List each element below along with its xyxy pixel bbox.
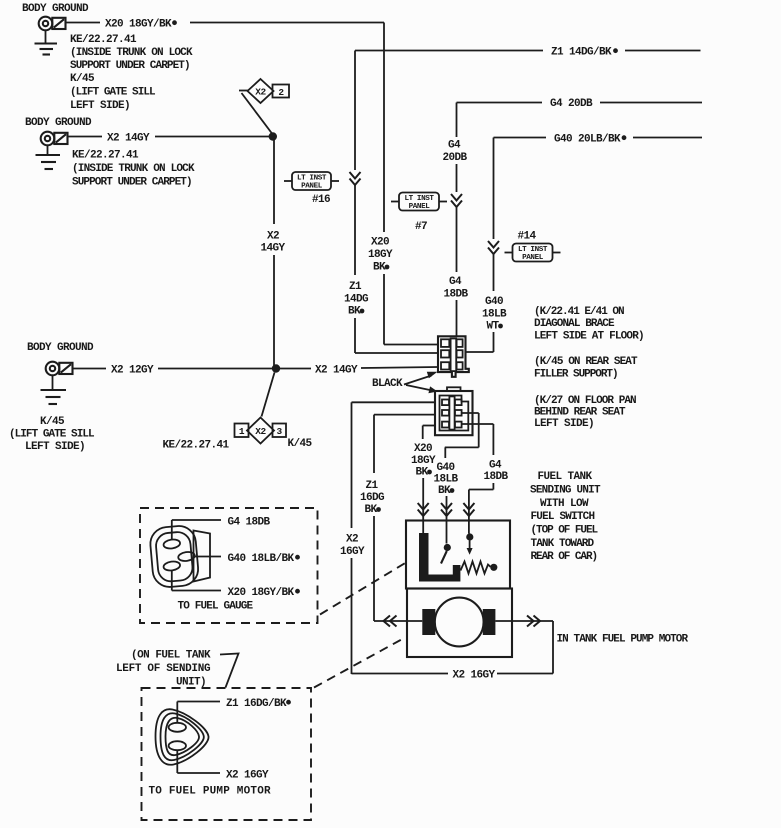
fuel gauge connector face — [149, 525, 210, 589]
wire X2 16GY from K2 — [340, 402, 435, 674]
wire G4 20DB horizontal — [457, 98, 703, 110]
svg-text:BEHIND REAR SEAT: BEHIND REAR SEAT — [534, 407, 626, 419]
svg-text:TO FUEL GAUGE: TO FUEL GAUGE — [178, 601, 254, 613]
svg-text:SUPPORT UNDER CARPET): SUPPORT UNDER CARPET) — [70, 60, 190, 72]
body ground G1 — [22, 3, 89, 55]
wiper arrow — [466, 533, 473, 554]
svg-text:FILLER SUPPORT): FILLER SUPPORT) — [534, 369, 618, 381]
svg-text:FUEL TANK: FUEL TANK — [538, 471, 593, 483]
svg-text:G4: G4 — [448, 140, 461, 152]
svg-text:X2: X2 — [255, 87, 266, 98]
wire G40 20LB vertical — [466, 138, 507, 353]
fuel pump connector face — [156, 709, 209, 765]
svg-text:Z1: Z1 — [349, 281, 362, 293]
instrument panel feed #7 — [391, 193, 447, 234]
body ground G2 — [25, 117, 92, 169]
svg-text:18LB: 18LB — [433, 474, 458, 486]
svg-text:LT INST: LT INST — [404, 195, 434, 203]
svg-text:Z1 16DG/BK: Z1 16DG/BK — [226, 698, 287, 710]
svg-text:(K/27 ON FLOOR PAN: (K/27 ON FLOOR PAN — [534, 395, 636, 407]
connector K2 (K/45) — [435, 387, 473, 435]
svg-text:TANK TOWARD: TANK TOWARD — [531, 538, 595, 550]
wire X2 14GY to connector K1 — [280, 365, 438, 377]
connector K1 (K/22.41 E/41) — [438, 336, 469, 377]
svg-text:FUEL SWITCH: FUEL SWITCH — [531, 511, 595, 523]
svg-text:G4: G4 — [449, 276, 462, 288]
svg-text:BK: BK — [415, 467, 428, 479]
svg-text:14GY: 14GY — [260, 243, 285, 255]
svg-text:Z1 14DG/BK: Z1 14DG/BK — [551, 47, 612, 59]
svg-text:(INSIDE TRUNK ON LOCK: (INSIDE TRUNK ON LOCK — [72, 163, 195, 175]
svg-text:X2: X2 — [346, 534, 358, 546]
pump motor M — [422, 598, 495, 647]
svg-text:G40 20LB/BK: G40 20LB/BK — [554, 134, 621, 146]
svg-text:X2 16GY: X2 16GY — [226, 770, 269, 782]
svg-text:#16: #16 — [312, 194, 330, 206]
pin wire G40 18LB/BK — [194, 553, 300, 565]
svg-text:G4 18DB: G4 18DB — [228, 517, 271, 529]
note K2 location — [534, 356, 638, 381]
svg-text:X2: X2 — [267, 231, 279, 243]
body ground G3 — [27, 342, 94, 404]
svg-text:G40 18LB/BK: G40 18LB/BK — [228, 553, 295, 565]
svg-text:BODY GROUND: BODY GROUND — [22, 3, 89, 15]
pin wire Z1 16DG/BK — [177, 698, 291, 723]
wire X2 12GY from G3 — [73, 365, 276, 377]
wire X20 18GY/BK from G1 — [66, 19, 384, 233]
svg-text:18GY: 18GY — [411, 455, 436, 467]
wire Z1 14DG/BK horizontal — [355, 47, 701, 59]
svg-text:(INSIDE TRUNK ON LOCK: (INSIDE TRUNK ON LOCK — [70, 47, 193, 59]
svg-text:X20 18GY/BK: X20 18GY/BK — [228, 587, 295, 599]
svg-text:DIAGONAL BRACE: DIAGONAL BRACE — [534, 318, 615, 330]
svg-text:REAR OF CAR): REAR OF CAR) — [531, 551, 598, 563]
svg-text:18DB: 18DB — [443, 289, 468, 301]
wire label X20 18GY BK — [368, 237, 438, 345]
connector symbol X2 cavity 2 — [239, 79, 289, 134]
sender resistor — [461, 562, 498, 574]
svg-text:X20: X20 — [371, 237, 389, 249]
wire G4 20DB vertical — [442, 103, 468, 337]
fuel tank sending unit box — [406, 521, 510, 589]
svg-text:KE/22.27.41: KE/22.27.41 — [72, 150, 139, 162]
pin wire X2 16GY — [177, 750, 269, 782]
svg-text:(ON FUEL TANK: (ON FUEL TANK — [131, 650, 211, 662]
wire X20 18GY from K2 — [411, 426, 436, 534]
svg-text:LEFT SIDE AT FLOOR): LEFT SIDE AT FLOOR) — [534, 331, 644, 343]
detail box: fuel gauge connector — [140, 508, 318, 623]
svg-text:PANEL: PANEL — [301, 183, 323, 191]
svg-text:#14: #14 — [518, 231, 537, 243]
detail callout dashed link upper — [320, 563, 406, 615]
svg-text:X2: X2 — [255, 426, 266, 437]
svg-text:Z1: Z1 — [365, 480, 378, 492]
wire G40 20LB/BK horizontal — [494, 134, 703, 146]
svg-text:SUPPORT UNDER CARPET): SUPPORT UNDER CARPET) — [72, 177, 192, 189]
label BLACK with pointers — [372, 372, 438, 393]
svg-text:LEFT SIDE): LEFT SIDE) — [70, 100, 130, 112]
svg-text:BK: BK — [438, 485, 451, 497]
wire Z1 16DG from K2 — [360, 415, 435, 621]
svg-text:(LIFT GATE SILL: (LIFT GATE SILL — [70, 87, 156, 99]
svg-text:14DG: 14DG — [344, 294, 369, 306]
note on fuel tank — [116, 650, 239, 689]
svg-text:LT INST: LT INST — [518, 246, 548, 254]
svg-text:K/45: K/45 — [70, 73, 95, 85]
svg-text:(K/45 ON REAR SEAT: (K/45 ON REAR SEAT — [534, 356, 638, 368]
svg-text:BLACK: BLACK — [372, 378, 403, 390]
svg-text:16GY: 16GY — [340, 546, 365, 558]
svg-text:UNIT): UNIT) — [176, 677, 206, 689]
svg-text:BK: BK — [348, 306, 361, 318]
in-tank fuel pump box — [407, 589, 512, 658]
svg-text:BK: BK — [364, 504, 377, 516]
svg-text:#7: #7 — [415, 221, 427, 233]
low fuel switch contact — [441, 544, 451, 564]
svg-text:BODY GROUND: BODY GROUND — [27, 342, 94, 354]
svg-text:K/45: K/45 — [40, 416, 65, 428]
svg-text:K/45: K/45 — [288, 438, 313, 450]
svg-text:BK: BK — [373, 262, 386, 274]
wire X2 14GY vertical — [260, 137, 285, 369]
sender float arm element — [419, 533, 460, 582]
svg-text:G4 20DB: G4 20DB — [550, 98, 593, 110]
svg-text:X20 18GY/BK: X20 18GY/BK — [105, 19, 172, 31]
svg-text:G40: G40 — [485, 296, 503, 308]
ground G1 location note — [70, 34, 193, 112]
ground G3 location note — [9, 416, 95, 453]
svg-text:X2 12GY: X2 12GY — [111, 365, 154, 377]
svg-text:LT INST: LT INST — [297, 175, 327, 183]
svg-text:X20: X20 — [414, 443, 432, 455]
svg-text:SENDING UNIT: SENDING UNIT — [530, 485, 601, 497]
svg-text:18LB: 18LB — [482, 309, 507, 321]
svg-text:G40: G40 — [436, 462, 454, 474]
svg-text:PANEL: PANEL — [409, 203, 431, 211]
svg-text:X2 14GY: X2 14GY — [107, 133, 150, 145]
svg-text:16DG: 16DG — [360, 492, 385, 504]
svg-text:LEFT OF SENDING: LEFT OF SENDING — [116, 663, 211, 675]
svg-text:(LIFT GATE SILL: (LIFT GATE SILL — [9, 429, 95, 441]
ground G2 location note — [72, 150, 195, 189]
instrument panel feed #14 — [505, 231, 561, 263]
wire Z1 14DG vertical — [344, 51, 438, 354]
instrument panel feed #16 — [284, 172, 339, 206]
svg-text:X2 14GY: X2 14GY — [315, 365, 358, 377]
svg-text:LEFT SIDE): LEFT SIDE) — [534, 418, 594, 430]
svg-text:(TOP OF FUEL: (TOP OF FUEL — [531, 525, 599, 537]
svg-text:(K/22.41 E/41 ON: (K/22.41 E/41 ON — [534, 306, 624, 318]
svg-text:WITH LOW: WITH LOW — [540, 498, 589, 510]
connector symbol X2 cavities 1-3 — [163, 373, 313, 452]
svg-text:18GY: 18GY — [368, 249, 393, 261]
wire G40 18LB from K2 — [433, 413, 478, 544]
note K/27 location — [534, 395, 636, 430]
wire Z1 16DG to left brush — [374, 616, 422, 627]
svg-text:1: 1 — [239, 426, 245, 437]
detail box: fuel pump connector — [142, 688, 312, 820]
wire G4 18DB from K2 — [462, 424, 509, 534]
svg-text:2: 2 — [278, 87, 284, 98]
svg-text:TO FUEL PUMP MOTOR: TO FUEL PUMP MOTOR — [149, 786, 271, 798]
wire X2 16GY from right brush — [352, 616, 554, 682]
note K1 location — [534, 306, 644, 343]
wire X2 14GY from G2 — [68, 133, 273, 145]
svg-text:G4: G4 — [489, 460, 502, 472]
svg-text:WT: WT — [486, 321, 499, 333]
note fuel tank sending unit — [530, 471, 601, 563]
svg-text:IN TANK FUEL PUMP MOTOR: IN TANK FUEL PUMP MOTOR — [557, 634, 689, 646]
svg-text:3: 3 — [277, 426, 283, 437]
svg-text:18DB: 18DB — [483, 471, 508, 483]
svg-text:20DB: 20DB — [442, 152, 467, 164]
svg-text:LEFT SIDE): LEFT SIDE) — [25, 441, 85, 453]
svg-text:PANEL: PANEL — [522, 254, 544, 262]
junction node J1 — [269, 132, 277, 140]
pin wire X20 18GY/BK — [172, 570, 300, 599]
svg-text:KE/22.27.41: KE/22.27.41 — [163, 440, 230, 452]
svg-text:X2 16GY: X2 16GY — [453, 670, 496, 682]
svg-text:KE/22.27.41: KE/22.27.41 — [70, 34, 137, 46]
junction node J2 — [272, 364, 280, 372]
detail callout dashed link lower — [314, 637, 406, 688]
pin wire G4 18DB — [172, 517, 271, 541]
svg-text:BODY GROUND: BODY GROUND — [25, 117, 92, 129]
